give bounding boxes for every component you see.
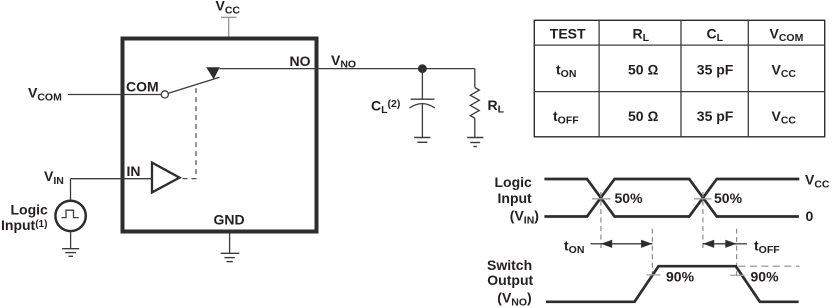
capacitor CL lead — [421, 69, 423, 99]
svg-text:90%: 90% — [751, 269, 780, 285]
svg-text:50%: 50% — [714, 190, 743, 206]
Logic Input (Vin) waveform label — [495, 174, 539, 226]
svg-text:50%: 50% — [615, 190, 644, 206]
ground at RL — [467, 138, 483, 147]
svg-text:35 pF: 35 pF — [697, 108, 734, 124]
svg-text:NO: NO — [290, 53, 311, 69]
svg-text:Logic: Logic — [11, 202, 49, 218]
Logic Input label — [1, 202, 48, 234]
tOFF arrow — [703, 240, 747, 248]
wire Vin to IN pin — [71, 178, 153, 180]
dashed control line — [183, 86, 197, 179]
logic input waveform trace A — [544, 179, 799, 217]
switch arm — [168, 77, 219, 93]
svg-text:50 Ω: 50 Ω — [628, 62, 658, 78]
Switch Output (Vno) waveform label — [487, 257, 534, 308]
capacitor CL top plate — [411, 98, 435, 100]
test conditions table — [534, 20, 826, 137]
svg-text:COM: COM — [126, 78, 159, 94]
wire NO output — [220, 68, 475, 70]
svg-text:35 pF: 35 pF — [697, 62, 734, 78]
ground at GND pin — [221, 234, 240, 262]
logic input waveform trace B — [544, 179, 799, 217]
svg-text:90%: 90% — [666, 269, 695, 285]
wire Vcom to COM pin — [68, 94, 161, 96]
ground at source — [62, 231, 79, 256]
tick at first crossing — [592, 198, 611, 200]
DUT box U1 — [123, 39, 317, 232]
dashed line fall 90% — [736, 229, 738, 278]
tick at rise 90% — [647, 274, 661, 276]
svg-text:TEST: TEST — [550, 26, 586, 42]
svg-text:IN: IN — [127, 163, 141, 179]
wire source to Vin — [70, 179, 72, 201]
switch pole contact — [161, 91, 168, 98]
Vcc supply stub — [221, 17, 237, 36]
capacitor CL curved plate — [409, 104, 435, 108]
svg-text:Switch: Switch — [487, 257, 532, 273]
pulse source V1 — [55, 201, 85, 231]
svg-text:GND: GND — [214, 212, 245, 228]
dashed high level extension — [738, 265, 799, 267]
wire to RL — [474, 69, 476, 88]
buffer amplifier — [152, 163, 180, 193]
dashed line rise 90% — [651, 229, 653, 278]
switch output waveform — [546, 266, 799, 302]
svg-text:0: 0 — [806, 208, 814, 224]
tick at fall 90% — [730, 274, 744, 276]
svg-text:50 Ω: 50 Ω — [628, 108, 658, 124]
svg-text:Input: Input — [498, 190, 533, 206]
resistor RL — [470, 88, 479, 119]
dashed line first crossing — [600, 192, 602, 251]
node junction on NO wire — [418, 64, 427, 73]
tON arrow — [591, 240, 653, 248]
svg-text:Output: Output — [487, 272, 533, 288]
RL bottom lead — [474, 118, 476, 137]
dashed line second crossing — [702, 192, 704, 251]
svg-text:Logic: Logic — [495, 174, 533, 190]
ground at CL — [414, 138, 430, 143]
switch NO contact arrow — [206, 67, 220, 79]
capacitor CL bottom lead — [421, 104, 423, 138]
tick at second crossing — [694, 198, 712, 200]
pulse symbol — [62, 210, 79, 217]
